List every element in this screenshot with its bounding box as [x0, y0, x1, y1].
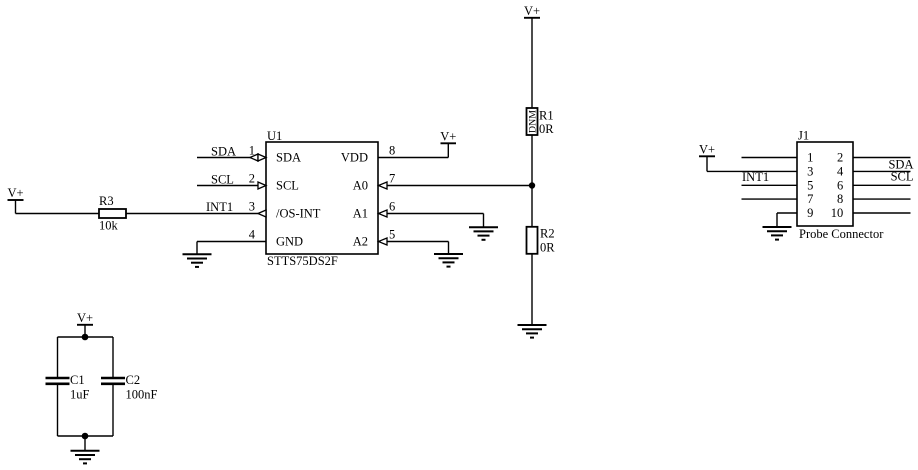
wire J1 pin1 — [742, 157, 798, 159]
wire R1 to R2 — [531, 135, 533, 226]
resistor R2 — [527, 227, 556, 255]
junction V+/C1/C2 — [82, 334, 89, 341]
power V+ (capacitor bank) — [77, 311, 93, 337]
wire R3 to U1 pin3 (net INT1) — [126, 213, 266, 215]
wire J1 pin9 to ground — [777, 213, 797, 227]
svg-text:2: 2 — [249, 172, 255, 186]
svg-text:/OS-INT: /OS-INT — [276, 207, 321, 221]
wire J1 pin10 — [853, 212, 911, 214]
svg-text:3: 3 — [249, 200, 255, 214]
svg-text:VDD: VDD — [341, 151, 368, 165]
ground (U1 pin5 / A2) — [434, 254, 463, 267]
ground (capacitor bank) — [71, 451, 100, 464]
pin 7 input arrow — [379, 182, 388, 189]
ground (U1 pin4) — [183, 254, 212, 267]
svg-text:9: 9 — [807, 206, 813, 220]
wire J1 pin4 (net SCL) — [853, 170, 911, 172]
junction A0/R1/R2 — [529, 182, 535, 188]
wire J1 pin5 (net INT1) — [742, 184, 798, 186]
svg-text:C1: C1 — [70, 373, 85, 387]
wire J1 pin8 — [853, 198, 911, 200]
svg-text:8: 8 — [837, 192, 843, 206]
svg-text:8: 8 — [389, 144, 395, 158]
svg-text:0R: 0R — [539, 122, 554, 136]
svg-text:DNM: DNM — [527, 110, 538, 133]
wire U1 pin6 (A1) to ground — [378, 214, 484, 228]
svg-text:GND: GND — [276, 235, 303, 249]
wire J1 pin3 to V+ — [707, 170, 797, 172]
junction C1/C2/ground — [82, 433, 89, 440]
svg-text:C2: C2 — [126, 373, 141, 387]
svg-text:INT1: INT1 — [206, 200, 233, 214]
wire U1 pin8 (VDD) to V+ — [378, 143, 448, 157]
capacitor C1 — [46, 337, 90, 436]
svg-text:Probe Connector: Probe Connector — [799, 227, 884, 241]
svg-text:J1: J1 — [798, 129, 809, 143]
svg-text:V+: V+ — [7, 186, 23, 200]
power V+ (top, feeds R1) — [524, 4, 540, 18]
ground (U1 pin6 / A1) — [469, 227, 498, 240]
svg-text:6: 6 — [389, 200, 395, 214]
svg-text:7: 7 — [389, 172, 395, 186]
svg-text:SCL: SCL — [276, 179, 299, 193]
wire J1 pin2 (net SDA) — [853, 157, 911, 159]
wire V+ to R1 — [531, 18, 533, 108]
op-amp U1 (STTS75DS2F temperature sensor) — [266, 129, 378, 268]
svg-text:4: 4 — [837, 164, 844, 178]
wire V+ to R3 — [16, 213, 100, 215]
svg-text:1: 1 — [807, 151, 813, 165]
svg-text:V+: V+ — [524, 4, 540, 18]
power V+ (left, feeds R3) — [7, 186, 23, 214]
svg-text:3: 3 — [807, 164, 813, 178]
resistor R1 (DNM) — [527, 108, 555, 136]
svg-text:1uF: 1uF — [70, 388, 90, 402]
wire J1 pin7 — [742, 198, 798, 200]
svg-text:R3: R3 — [99, 194, 114, 208]
svg-text:SDA: SDA — [276, 151, 301, 165]
ground (J1 pin9) — [763, 227, 792, 240]
svg-text:5: 5 — [389, 228, 395, 242]
wire U1 pin4 to ground — [197, 242, 266, 255]
power V+ (J1 pin3) — [699, 143, 715, 172]
svg-text:STTS75DS2F: STTS75DS2F — [267, 254, 338, 268]
svg-text:0R: 0R — [540, 240, 555, 254]
pin 6 input arrow — [379, 210, 388, 217]
capacitor C2 — [101, 337, 158, 436]
wire R2 to ground — [531, 254, 533, 325]
svg-text:V+: V+ — [77, 311, 93, 325]
svg-text:INT1: INT1 — [742, 170, 769, 184]
svg-text:5: 5 — [807, 178, 813, 192]
pin 2 input arrow — [258, 182, 266, 189]
svg-text:10k: 10k — [99, 219, 119, 233]
resistor R3 — [99, 194, 126, 233]
wire net SDA to U1 pin1 — [197, 157, 266, 159]
svg-text:SCL: SCL — [211, 173, 234, 187]
pin 1 bidirectional arrow — [250, 154, 266, 161]
connector J1 (Probe Connector) — [797, 129, 884, 242]
svg-text:2: 2 — [837, 151, 843, 165]
svg-text:A2: A2 — [353, 235, 368, 249]
svg-text:A0: A0 — [353, 179, 368, 193]
wire U1 pin7 (A0) to R1/R2 junction — [378, 185, 532, 187]
wire cap top rail — [58, 336, 114, 338]
svg-text:V+: V+ — [440, 130, 456, 144]
svg-text:U1: U1 — [267, 129, 282, 143]
svg-text:R1: R1 — [539, 109, 554, 123]
svg-text:4: 4 — [249, 228, 256, 242]
svg-text:6: 6 — [837, 178, 843, 192]
svg-text:R2: R2 — [540, 227, 555, 241]
svg-text:10: 10 — [831, 206, 844, 220]
svg-text:SDA: SDA — [211, 145, 236, 159]
svg-text:V+: V+ — [699, 143, 715, 157]
pin 3 output arrow — [258, 210, 266, 217]
svg-text:7: 7 — [807, 192, 813, 206]
power V+ (U1 VDD) — [440, 130, 456, 144]
wire J1 pin6 — [853, 184, 911, 186]
svg-text:SCL: SCL — [891, 170, 914, 184]
wire net SCL to U1 pin2 — [197, 185, 266, 187]
wire junction to ground — [84, 436, 86, 451]
svg-text:100nF: 100nF — [126, 388, 158, 402]
wire U1 pin5 (A2) to ground — [378, 242, 449, 255]
wire cap bottom rail — [58, 435, 114, 437]
pin 5 input arrow — [379, 238, 388, 245]
svg-text:A1: A1 — [353, 207, 368, 221]
ground (R2) — [518, 325, 547, 338]
